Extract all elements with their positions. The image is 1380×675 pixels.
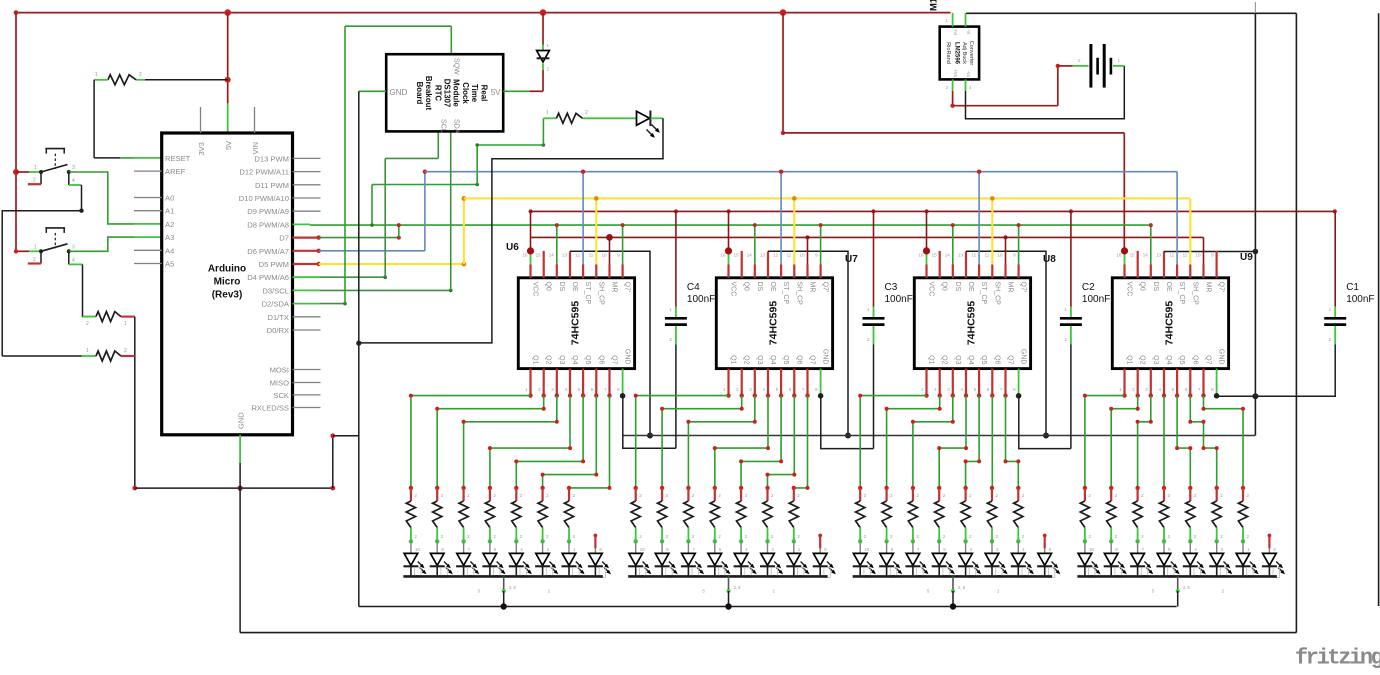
svg-text:MR: MR bbox=[809, 282, 816, 293]
wire SH_CP drop U7 bbox=[793, 198, 795, 264]
wire OE U7 to GND bus bbox=[767, 251, 769, 264]
U8 pin 4 Q4 bbox=[965, 369, 967, 396]
wire U7.Q2 to resistor bbox=[662, 396, 742, 488]
svg-text:SCK: SCK bbox=[273, 391, 289, 400]
svg-text:Q7': Q7' bbox=[1020, 282, 1027, 293]
Arduino pin stub SS bbox=[293, 407, 321, 409]
U7 pin 2 Q2 bbox=[741, 369, 743, 396]
svg-text:GND: GND bbox=[1020, 349, 1027, 365]
resistor R37 bbox=[1159, 486, 1170, 544]
LED segment 4.3 bbox=[1130, 541, 1153, 577]
U6 pin 4 Q4 bbox=[569, 369, 571, 396]
LED segment 2.3 bbox=[681, 541, 704, 577]
wire MR drop U6 bbox=[609, 237, 611, 264]
wire M1 +Vo to battery + bbox=[953, 91, 1058, 106]
wire D8 stub bbox=[293, 223, 311, 225]
svg-text:C3: C3 bbox=[885, 282, 898, 293]
svg-text:10: 10 bbox=[864, 547, 870, 552]
svg-text:16: 16 bbox=[720, 253, 726, 258]
wire S1 pin3 to A2 bbox=[69, 172, 134, 224]
svg-text:GND: GND bbox=[624, 349, 631, 365]
svg-text:D11 PWM: D11 PWM bbox=[255, 181, 289, 190]
svg-text:Q2: Q2 bbox=[743, 355, 750, 364]
svg-text:Q6: Q6 bbox=[597, 355, 604, 364]
svg-text:A0: A0 bbox=[165, 194, 174, 203]
wire GND bus y435.5 bbox=[623, 435, 1256, 437]
svg-text:3, 8: 3, 8 bbox=[1183, 585, 1191, 590]
wire U8.Q2 to resistor bbox=[887, 396, 940, 488]
wire U9 GND / C1 / GND feed junction y396 bbox=[1216, 395, 1336, 397]
svg-text:SDA: SDA bbox=[452, 119, 459, 134]
U7 pin 1 Q1 bbox=[727, 369, 729, 396]
wire GND right border vertical to bottom rail bbox=[1295, 13, 1297, 632]
svg-text:Micro: Micro bbox=[214, 277, 241, 288]
svg-text:14: 14 bbox=[747, 253, 753, 258]
resistor R15 bbox=[538, 486, 549, 544]
Arduino pin stub D10 bbox=[293, 197, 321, 199]
wire D5 to SH_CP yellow bus bbox=[319, 263, 464, 265]
svg-text:Board: Board bbox=[415, 82, 424, 105]
svg-text:Q0: Q0 bbox=[1139, 282, 1146, 291]
wire U8.Q6 to resistor bbox=[991, 396, 993, 488]
svg-text:14: 14 bbox=[945, 253, 951, 258]
wire D4 stub bbox=[293, 276, 320, 278]
svg-text:Q5: Q5 bbox=[584, 355, 591, 364]
junction 5V rail / left border bbox=[14, 10, 19, 15]
svg-text:Q7: Q7 bbox=[1007, 355, 1014, 364]
wire yellow clock bus y198.4 bbox=[464, 197, 1190, 199]
svg-text:Q6: Q6 bbox=[993, 355, 1000, 364]
svg-text:Time: Time bbox=[470, 84, 479, 103]
U6 pin 5 Q5 bbox=[582, 369, 584, 396]
svg-text:3: 3 bbox=[72, 244, 75, 250]
U8 pin 7 Q7 bbox=[1004, 369, 1006, 396]
wire Arduino GND to bottom rail bbox=[239, 435, 241, 463]
wire MR drop U8 bbox=[1005, 237, 1007, 264]
wire GND feed vertical x1255 bbox=[1254, 13, 1256, 435]
wire U7.Q7 to resistor bbox=[794, 396, 808, 488]
Arduino pin stub A0 bbox=[134, 197, 162, 199]
svg-text:A1: A1 bbox=[165, 207, 174, 216]
LED segment 3.5 bbox=[958, 541, 981, 577]
wire U9.Q7 to resistor bbox=[1204, 396, 1244, 488]
svg-text:DS: DS bbox=[1152, 282, 1159, 292]
svg-text:ST_CP: ST_CP bbox=[584, 282, 591, 305]
svg-text:1: 1 bbox=[86, 348, 89, 354]
wire Q7' U8 bbox=[1018, 225, 1020, 264]
U9 pin 10 MR bbox=[1202, 265, 1204, 278]
junction 5V rail at x228 bbox=[224, 9, 231, 16]
svg-text:Q2: Q2 bbox=[1139, 355, 1146, 364]
svg-text:OE: OE bbox=[571, 282, 578, 292]
M1 pin -Vo (bottom right) bbox=[965, 79, 967, 91]
svg-text:Q0: Q0 bbox=[545, 282, 552, 291]
svg-text:Q7': Q7' bbox=[822, 282, 829, 293]
svg-text:D12 PWM/A11: D12 PWM/A11 bbox=[239, 168, 289, 177]
svg-text:Q5: Q5 bbox=[980, 355, 987, 364]
svg-text:GND: GND bbox=[822, 349, 829, 365]
resistor R13 bbox=[485, 486, 496, 544]
LED segment 3.3 bbox=[905, 541, 928, 577]
U6 pin 7 Q7 bbox=[608, 369, 610, 396]
LED segment 4.6 bbox=[1209, 541, 1232, 577]
U9 pin 8 GND bbox=[1216, 369, 1218, 396]
wire R2 right lead bbox=[121, 316, 135, 318]
U6 pin 14 DS bbox=[556, 265, 558, 278]
svg-text:Clock: Clock bbox=[461, 82, 470, 104]
wire D6 to ST_CP blue bus bbox=[319, 250, 425, 252]
U7 pin 3 Q3 bbox=[754, 369, 756, 396]
wire MR drop U9 bbox=[1203, 237, 1205, 264]
U6 pin 12 ST_CP bbox=[582, 265, 584, 278]
U6 pin 2 Q2 bbox=[543, 369, 545, 396]
svg-text:74HC595: 74HC595 bbox=[966, 301, 978, 346]
svg-text:Q1: Q1 bbox=[532, 355, 539, 364]
wire S2 pin4 to R2 bbox=[68, 251, 70, 264]
svg-text:Q5: Q5 bbox=[1178, 355, 1185, 364]
resistor R11 bbox=[433, 486, 444, 544]
DIS3 common bar bbox=[853, 575, 1052, 578]
resistor R30 bbox=[961, 486, 972, 544]
wire MR drop U7 bbox=[807, 237, 809, 264]
svg-text:A2: A2 bbox=[165, 220, 174, 229]
wire VCC drop U6 bbox=[530, 211, 532, 251]
svg-text:OE: OE bbox=[967, 282, 974, 292]
LED segment 1.3 bbox=[456, 541, 479, 577]
svg-text:MR: MR bbox=[1205, 282, 1212, 293]
svg-text:14: 14 bbox=[549, 253, 555, 258]
U9 pin 11 SH_CP bbox=[1189, 265, 1191, 278]
resistor R35 bbox=[1107, 486, 1118, 544]
wire OE U9 to GND bus bbox=[1163, 251, 1165, 264]
LED DP 3.8 (unconnected) bbox=[1037, 534, 1060, 578]
U9 pin 2 Q2 bbox=[1137, 369, 1139, 396]
wire VCC drop U7 bbox=[728, 211, 730, 251]
svg-text:2: 2 bbox=[86, 321, 89, 327]
wire Q7' U9 bbox=[1215, 251, 1217, 265]
svg-text:10: 10 bbox=[1195, 253, 1201, 258]
wire U7.Q4 to resistor bbox=[715, 396, 768, 488]
svg-text:12: 12 bbox=[575, 253, 581, 258]
DIS3 common cathode pin bbox=[952, 576, 954, 591]
wire SH_CP drop U9 bbox=[1189, 198, 1191, 264]
svg-text:Q3: Q3 bbox=[954, 355, 961, 364]
svg-text:DS: DS bbox=[954, 282, 961, 292]
Arduino pin stub D9 bbox=[293, 210, 321, 212]
resistor R29 bbox=[935, 486, 946, 544]
LED segment 4.1 bbox=[1077, 541, 1100, 577]
U7 pin 11 SH_CP bbox=[793, 265, 795, 278]
wire D4 to RTC SCL bbox=[320, 276, 386, 278]
svg-text:2: 2 bbox=[33, 257, 36, 263]
resistor R27 bbox=[882, 486, 893, 544]
svg-text:-Vo: -Vo bbox=[966, 70, 971, 77]
wire R1 right lead to 5V column bbox=[136, 79, 145, 81]
svg-text:D3/SCL: D3/SCL bbox=[262, 286, 289, 295]
LED segment 4.2 bbox=[1104, 541, 1127, 577]
DIS4 common bar bbox=[1077, 575, 1276, 578]
svg-text:MR: MR bbox=[1007, 282, 1014, 293]
svg-text:MOSI: MOSI bbox=[270, 366, 289, 375]
svg-text:5V: 5V bbox=[491, 88, 501, 97]
Arduino pin stub D13 bbox=[293, 157, 321, 159]
U9 pin 12 ST_CP bbox=[1176, 265, 1178, 278]
svg-text:100nF: 100nF bbox=[885, 294, 913, 305]
LED DP 4.8 (unconnected) bbox=[1262, 534, 1285, 578]
wire U9.Q4 to resistor bbox=[1163, 396, 1165, 488]
svg-text:10: 10 bbox=[1089, 547, 1095, 552]
LED segment 3.2 bbox=[879, 541, 902, 577]
wire to RESET pin bbox=[94, 157, 120, 159]
svg-text:ST_CP: ST_CP bbox=[1178, 282, 1185, 305]
wire Q7' U7 bbox=[820, 225, 822, 264]
Arduino pin stub A1 bbox=[134, 210, 162, 212]
svg-text:Q2: Q2 bbox=[941, 355, 948, 364]
resistor R21 bbox=[710, 486, 721, 544]
resistor R20 bbox=[684, 486, 695, 544]
U7 pin 10 MR bbox=[806, 265, 808, 278]
svg-text:Q3: Q3 bbox=[1152, 355, 1159, 364]
U7 pin 13 OE bbox=[767, 265, 769, 278]
svg-text:16: 16 bbox=[1116, 253, 1122, 258]
wire U6.Q3 to resistor bbox=[464, 396, 557, 488]
Arduino pin stub SCK bbox=[293, 394, 321, 396]
svg-text:U9: U9 bbox=[1240, 252, 1253, 263]
op-amp U7 74HC595 shift register bbox=[716, 278, 832, 369]
U8 pin 16 VCC bbox=[925, 265, 927, 278]
svg-text:AREF: AREF bbox=[165, 167, 186, 176]
svg-text:Q2: Q2 bbox=[545, 355, 552, 364]
pushbutton S1 bbox=[13, 149, 75, 185]
wire +5V top rail bbox=[16, 12, 951, 14]
wire GND top rail (black) bbox=[966, 12, 1296, 14]
wire 5V rail to R1/5V pin vertical x228 bbox=[227, 13, 229, 104]
resistor R36 bbox=[1133, 486, 1144, 544]
resistor R4 (status LED) bbox=[543, 117, 556, 119]
svg-text:D8 PWM/A8: D8 PWM/A8 bbox=[247, 220, 289, 229]
wire U8.Q1 to resistor bbox=[860, 396, 926, 488]
svg-text:+Vi: +Vi bbox=[953, 29, 958, 35]
wire display common bus y606.5 bbox=[359, 606, 1177, 608]
svg-text:16: 16 bbox=[918, 253, 924, 258]
svg-text:3, 8: 3, 8 bbox=[734, 585, 742, 590]
wire U6.Q2 to resistor bbox=[437, 396, 544, 488]
wire D7 to data bus bbox=[319, 237, 399, 239]
svg-text:OE: OE bbox=[1165, 282, 1172, 292]
LED segment 1.2 bbox=[430, 541, 453, 577]
U8 Q0 stub unconnected bbox=[939, 251, 941, 265]
svg-text:ST_CP: ST_CP bbox=[980, 282, 987, 305]
U8 pin 1 Q1 bbox=[925, 369, 927, 396]
svg-text:74HC595: 74HC595 bbox=[570, 301, 582, 346]
LED DP 2.8 (unconnected) bbox=[813, 534, 836, 578]
U6 pin 3 Q3 bbox=[556, 369, 558, 396]
battery BT1 bbox=[1073, 44, 1125, 88]
U7 pin 16 VCC bbox=[727, 265, 729, 278]
wire VCC drop U8 bbox=[926, 211, 928, 251]
U9 pin 6 Q6 bbox=[1189, 369, 1191, 396]
wire U8.Q3 to resistor bbox=[913, 396, 953, 488]
capacitor C3 100nF bbox=[863, 211, 913, 448]
junction 5V rail at diode column bbox=[540, 9, 547, 16]
svg-text:Arduino: Arduino bbox=[208, 264, 246, 275]
resistor R28 bbox=[908, 486, 919, 544]
wire R2/R3 join vertical bbox=[134, 317, 136, 489]
resistor R39 bbox=[1212, 486, 1223, 544]
svg-text:Q6: Q6 bbox=[1191, 355, 1198, 364]
resistor R32 bbox=[1014, 486, 1025, 544]
wire U6 GND to C4 bbox=[623, 396, 676, 449]
wire U6.Q7 to resistor bbox=[569, 396, 610, 488]
U7 pin 9 Q7' bbox=[819, 265, 821, 278]
svg-text:Breakout: Breakout bbox=[424, 76, 433, 111]
node GND cross at arduino GND column bbox=[238, 486, 243, 491]
svg-text:3: 3 bbox=[72, 165, 75, 171]
svg-text:100nF: 100nF bbox=[1346, 294, 1374, 305]
LED DP 1.8 (unconnected) bbox=[588, 534, 611, 578]
U6 pin 1 Q1 bbox=[529, 369, 531, 396]
LED segment 1.4 bbox=[482, 541, 505, 577]
svg-text:VCC: VCC bbox=[730, 282, 737, 297]
U9 pin 4 Q4 bbox=[1163, 369, 1165, 396]
wire VCC bus y211.4 bbox=[531, 210, 1335, 212]
A2 pin stub bbox=[134, 223, 162, 225]
A3 pin stub bbox=[134, 236, 162, 238]
wire D8 riser to status LED net bbox=[371, 185, 373, 226]
Arduino pin stub D1 bbox=[293, 316, 321, 318]
svg-text:C2: C2 bbox=[1082, 282, 1095, 293]
wire U6.Q4 to resistor bbox=[490, 396, 570, 488]
wire D6 stub bbox=[293, 250, 319, 252]
Arduino pin stub A4 bbox=[134, 249, 162, 251]
svg-text:RTC: RTC bbox=[433, 85, 442, 102]
svg-text:Q0: Q0 bbox=[743, 282, 750, 291]
wire ST_CP drop U8 bbox=[978, 172, 980, 265]
DIS2 common bar bbox=[628, 575, 827, 578]
svg-text:12: 12 bbox=[1169, 253, 1175, 258]
svg-text:Q7: Q7 bbox=[809, 355, 816, 364]
svg-text:1: 1 bbox=[95, 72, 98, 78]
svg-text:10: 10 bbox=[415, 547, 421, 552]
capacitor C1 100nF bbox=[1324, 211, 1374, 396]
svg-text:VCC: VCC bbox=[928, 282, 935, 297]
wire LED1 cathode return to GND bbox=[359, 118, 663, 343]
wire status LED resistor feed vertical bbox=[542, 118, 544, 145]
svg-text:1: 1 bbox=[546, 110, 549, 116]
wire GND bottom rail bbox=[240, 632, 1296, 634]
wire R1 left lead bbox=[94, 79, 108, 81]
wire M1 -Vo to battery - bbox=[966, 66, 1125, 119]
svg-text:SH_CP: SH_CP bbox=[795, 282, 802, 306]
resistor R38 bbox=[1186, 486, 1197, 544]
svg-text:Q1: Q1 bbox=[928, 355, 935, 364]
U9 pin 14 DS bbox=[1150, 265, 1152, 278]
resistor R22 bbox=[737, 486, 748, 544]
svg-text:Q4: Q4 bbox=[967, 355, 974, 364]
svg-text:Q3: Q3 bbox=[756, 355, 763, 364]
U8 pin 9 Q7' bbox=[1017, 265, 1019, 278]
wire D3 stub bbox=[293, 289, 320, 291]
wire DS drop U7 bbox=[754, 225, 756, 264]
U7 pin 12 ST_CP bbox=[780, 265, 782, 278]
svg-text:M1: M1 bbox=[929, 0, 940, 11]
wire U8.Q5 to resistor bbox=[966, 396, 980, 488]
svg-text:Q4: Q4 bbox=[571, 355, 578, 364]
svg-text:D10 PWM/A10: D10 PWM/A10 bbox=[239, 194, 289, 203]
DIS4 common cathode pin bbox=[1177, 576, 1179, 591]
wire U9.Q3 to resistor bbox=[1138, 396, 1151, 488]
LED segment 2.2 bbox=[655, 541, 678, 577]
U6 pin 13 OE bbox=[569, 265, 571, 278]
wire DS drop U9 bbox=[1150, 225, 1152, 264]
svg-text:14: 14 bbox=[1143, 253, 1149, 258]
DIS1 common cathode pin bbox=[503, 576, 505, 591]
svg-text:Adj Buck: Adj Buck bbox=[961, 42, 967, 64]
wire 5V feed down from rail at x783 bbox=[782, 13, 784, 133]
wire U7.Q5 to resistor bbox=[741, 396, 781, 488]
LED segment 1.5 bbox=[509, 541, 532, 577]
svg-text:Q4: Q4 bbox=[1165, 355, 1172, 364]
svg-text:10: 10 bbox=[799, 253, 805, 258]
wire blue latch bus y171.5 bbox=[425, 171, 1177, 173]
U8 pin 10 MR bbox=[1004, 265, 1006, 278]
svg-text:Q0: Q0 bbox=[941, 282, 948, 291]
resistor R40 bbox=[1238, 486, 1249, 544]
svg-text:OE: OE bbox=[769, 282, 776, 292]
svg-text:SH_CP: SH_CP bbox=[993, 282, 1000, 306]
wire +5V left border vertical bbox=[15, 13, 17, 252]
wire ST_CP drop U7 bbox=[780, 172, 782, 265]
svg-text:10: 10 bbox=[640, 547, 646, 552]
diode D1 bbox=[542, 13, 544, 45]
resistor R31 bbox=[987, 486, 998, 544]
wire OE U8 to GND bus bbox=[965, 251, 967, 264]
svg-text:SQW: SQW bbox=[452, 58, 459, 75]
wire U7.Q6 to resistor bbox=[768, 396, 795, 488]
wire U8 GND to C2 bbox=[1019, 396, 1071, 449]
svg-text:10: 10 bbox=[601, 253, 607, 258]
svg-text:D0/RX: D0/RX bbox=[267, 326, 289, 335]
Arduino Micro A1 body bbox=[162, 133, 293, 435]
svg-text:-Vi: -Vi bbox=[966, 29, 971, 34]
Arduino pin stub MISO bbox=[293, 382, 321, 384]
wire SH_CP drop U8 bbox=[991, 198, 993, 264]
wire D3 to RTC SDA bbox=[320, 289, 451, 291]
svg-text:MISO: MISO bbox=[270, 379, 290, 388]
LED segment 4.4 bbox=[1157, 541, 1180, 577]
wire U8.Q7 to resistor bbox=[1006, 396, 1019, 488]
U6 pin 16 VCC bbox=[529, 265, 531, 278]
M1 pin +Vi (top left) bbox=[952, 13, 954, 27]
svg-text:U8: U8 bbox=[1043, 254, 1056, 265]
junction 5V rail at x783 bbox=[780, 9, 787, 16]
resistor R2 bbox=[83, 316, 97, 318]
U9 Q0 stub unconnected bbox=[1137, 251, 1139, 265]
svg-text:Q5: Q5 bbox=[782, 355, 789, 364]
svg-text:VCC: VCC bbox=[532, 282, 539, 297]
svg-text:4: 4 bbox=[72, 257, 75, 263]
U7 pin 4 Q4 bbox=[767, 369, 769, 396]
wire U8.Q4 to resistor bbox=[939, 396, 966, 488]
U7 pin 8 GND bbox=[820, 369, 822, 396]
wire 5V feed vertical to U9 VCC bbox=[1123, 133, 1125, 251]
U8 pin 8 GND bbox=[1018, 369, 1020, 396]
buck converter module M1 LM2596 bbox=[940, 27, 979, 80]
U8 pin 13 OE bbox=[965, 265, 967, 278]
resistor R18 bbox=[631, 486, 642, 544]
wire SH_CP drop U6 bbox=[595, 198, 597, 264]
U6 pin 11 SH_CP bbox=[595, 265, 597, 278]
